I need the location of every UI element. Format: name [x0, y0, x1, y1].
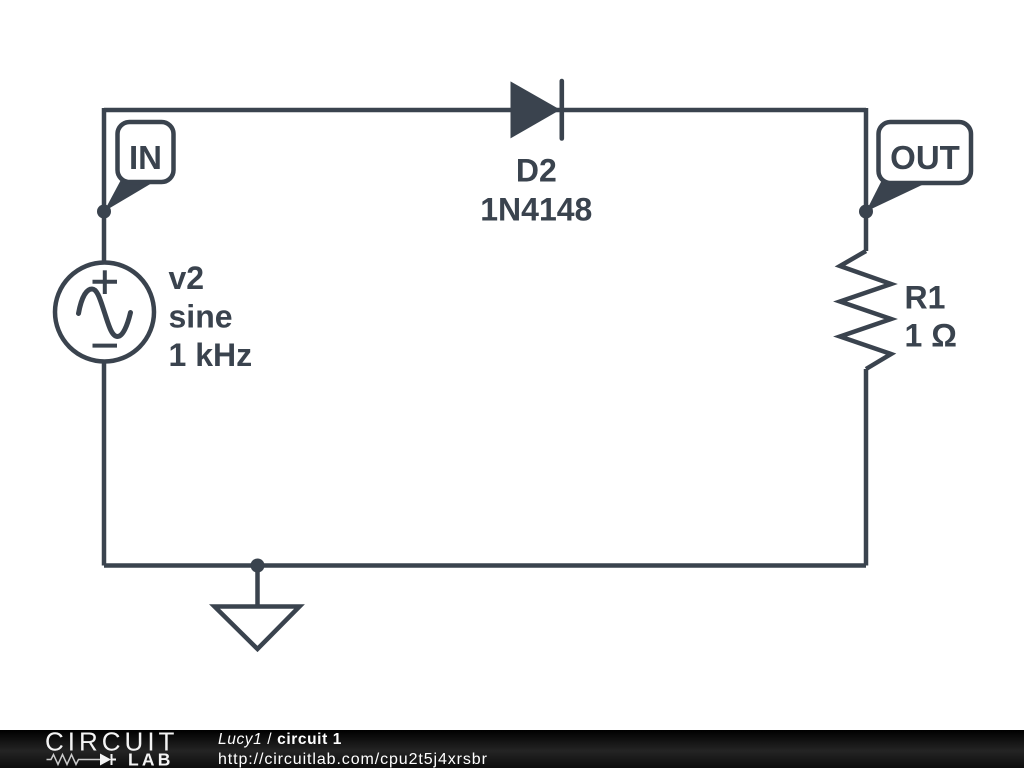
- wire right branch (OUT to R1 top): [864, 108, 869, 251]
- svg-text:1 kHz: 1 kHz: [169, 337, 253, 373]
- svg-text:1 Ω: 1 Ω: [905, 318, 957, 354]
- footer bar: [0, 730, 1024, 768]
- svg-text:sine: sine: [169, 298, 233, 334]
- wire right branch (R1 bottom): [864, 369, 869, 566]
- svg-text:OUT: OUT: [890, 139, 960, 176]
- svg-text:D2: D2: [516, 153, 557, 189]
- svg-text:Lucy1 / circuit 1: Lucy1 / circuit 1: [218, 731, 342, 748]
- logo resistor zigzag: [47, 755, 101, 765]
- svg-text:1N4148: 1N4148: [480, 192, 592, 228]
- wire left branch (v2 bottom): [102, 362, 107, 566]
- wire left branch (v2 top): [102, 108, 107, 262]
- v2 minus sign: [93, 344, 118, 348]
- svg-text:IN: IN: [129, 139, 162, 176]
- node IN flag beak: [104, 176, 152, 212]
- wire top net IN to OUT: [104, 108, 866, 113]
- wire bottom net: [104, 563, 866, 568]
- v2 plus sign: [93, 270, 118, 294]
- svg-text:v2: v2: [169, 260, 205, 296]
- resistor R1 zigzag: [840, 251, 891, 369]
- node OUT junction dot: [859, 205, 873, 219]
- svg-text:http://circuitlab.com/cpu2t5j4: http://circuitlab.com/cpu2t5j4xrsbr: [218, 751, 488, 768]
- svg-text:LAB: LAB: [128, 750, 174, 768]
- node IN flag box: [118, 122, 174, 182]
- wire ground stub: [255, 566, 260, 607]
- logo diode: [100, 754, 111, 766]
- node IN junction dot: [97, 205, 111, 219]
- node OUT flag beak: [866, 176, 922, 212]
- diode D2 symbol: [511, 81, 562, 139]
- voltage source v2 circle: [55, 263, 154, 362]
- ground symbol: [215, 607, 300, 650]
- svg-text:R1: R1: [905, 279, 946, 315]
- ground junction dot: [251, 559, 265, 573]
- v2 sine wave: [79, 289, 131, 337]
- node OUT flag box: [879, 122, 972, 183]
